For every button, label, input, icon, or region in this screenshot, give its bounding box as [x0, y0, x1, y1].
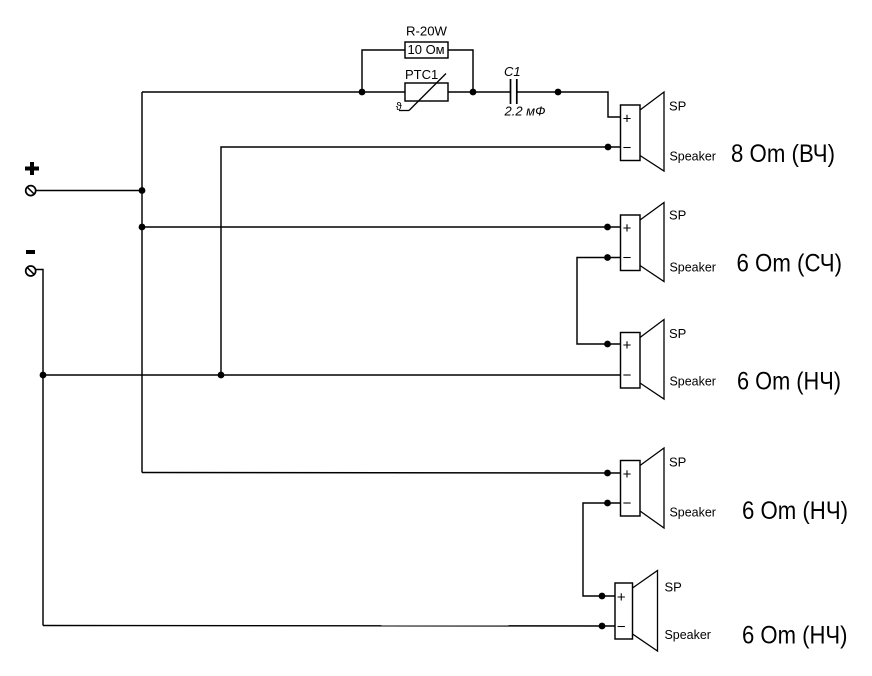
svg-text:−: −: [617, 618, 626, 635]
resistor R-20W 10 Om body: [405, 42, 448, 58]
speaker SP2: [621, 203, 717, 282]
junction common line at x221: [218, 372, 225, 379]
junction SP2 plus: [604, 224, 611, 231]
junction at positive bus and + wire: [139, 187, 146, 194]
svg-text:6 Om (НЧ): 6 Om (НЧ): [737, 368, 841, 396]
svg-text:R-20W: R-20W: [406, 23, 448, 38]
svg-text:SP: SP: [665, 580, 682, 595]
svg-text:Speaker: Speaker: [670, 260, 717, 275]
svg-text:+: +: [623, 466, 632, 483]
wire capacitor to speaker SP1 plus: [517, 92, 621, 117]
wire from + terminal to bus: [36, 190, 142, 192]
svg-text:6 Om (НЧ): 6 Om (НЧ): [742, 621, 848, 649]
wire common return line to speaker SP3 minus: [43, 374, 621, 376]
speaker SP1: [621, 92, 717, 171]
svg-text:SP: SP: [669, 208, 686, 223]
wire resistor branch right: [448, 50, 473, 92]
svg-text:−: −: [623, 250, 632, 267]
junction SP3 plus: [604, 341, 611, 348]
node - input terminal: [26, 250, 36, 276]
node + input terminal: [25, 162, 39, 196]
svg-text:+: +: [623, 220, 632, 237]
wire speaker SP4 minus to SP5 plus: [583, 503, 621, 596]
svg-text:−: −: [623, 495, 632, 512]
capacitor C1 plates: [511, 79, 517, 104]
svg-text:Speaker: Speaker: [670, 148, 717, 163]
svg-text:6 Om (СЧ): 6 Om (СЧ): [737, 249, 843, 277]
svg-text:SP: SP: [669, 99, 686, 114]
speaker SP4: [621, 448, 717, 528]
speaker SP5: [615, 571, 712, 652]
svg-text:−: −: [623, 139, 632, 156]
wire bus to speaker SP2 plus: [142, 226, 621, 228]
junction SP2 minus: [604, 254, 611, 261]
svg-text:SP: SP: [669, 454, 686, 469]
junction resistor branch left: [359, 89, 366, 96]
svg-text:8 Om (ВЧ): 8 Om (ВЧ): [731, 140, 835, 168]
speaker SP3: [621, 320, 717, 400]
wire negative bus to speaker SP5 minus: [43, 625, 615, 628]
svg-text:+: +: [623, 111, 632, 128]
junction SP5 plus: [599, 593, 606, 600]
junction after capacitor: [555, 89, 562, 96]
svg-text:+: +: [617, 589, 626, 606]
svg-text:Speaker: Speaker: [665, 627, 712, 642]
wire speaker SP2 minus to SP3 plus: [577, 258, 621, 345]
junction SP4 plus: [604, 470, 611, 477]
wire speaker SP1 minus to common node: [221, 147, 621, 375]
junction SP5 minus: [599, 623, 606, 630]
junction at positive bus and SP2 wire: [139, 224, 146, 231]
wire from - terminal down negative bus: [36, 270, 43, 626]
svg-text:C1: C1: [504, 64, 521, 79]
wire resistor branch left: [362, 50, 405, 92]
svg-text:ϑ: ϑ: [396, 101, 402, 113]
wire bus to speaker SP4 plus: [142, 472, 621, 475]
thermistor PTC1 body: [396, 74, 448, 113]
svg-text:PTC1: PTC1: [405, 67, 438, 82]
svg-text:+: +: [623, 337, 632, 354]
svg-text:2.2 мФ: 2.2 мФ: [504, 104, 546, 119]
svg-text:10 Ом: 10 Ом: [408, 42, 445, 57]
junction resistor branch right: [470, 89, 477, 96]
svg-text:6 Om (НЧ): 6 Om (НЧ): [742, 497, 848, 525]
wire top main line left of PTC: [142, 91, 405, 93]
svg-text:Speaker: Speaker: [670, 374, 717, 389]
junction SP4 minus: [604, 500, 611, 507]
wire top main line PTC to capacitor: [448, 91, 510, 93]
junction negative bus at return line: [40, 372, 47, 379]
svg-text:Speaker: Speaker: [670, 504, 717, 519]
wire vertical positive bus: [141, 92, 143, 473]
junction SP1 minus: [605, 144, 612, 151]
svg-text:SP: SP: [669, 326, 686, 341]
svg-text:−: −: [623, 367, 632, 384]
